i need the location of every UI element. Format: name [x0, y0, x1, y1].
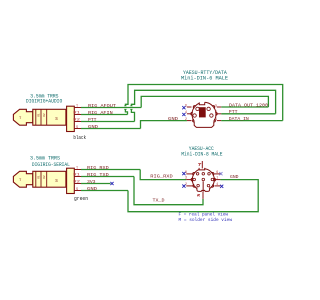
pin 4 of J4: [215, 182, 221, 186]
pin R1 of J3: [73, 174, 81, 178]
pin 8 of J4: [185, 170, 193, 174]
svg-text:GND: GND: [88, 124, 98, 130]
svg-text:TX_D: TX_D: [153, 198, 165, 204]
pin hole mid-left of J2: [193, 114, 196, 117]
wire GND audio: [81, 128, 141, 130]
svg-text:R1: R1: [37, 175, 40, 179]
svg-text:S: S: [76, 188, 78, 192]
pin hole row1b of J4: [202, 173, 205, 176]
wire PTT row DIN6: [221, 113, 275, 115]
svg-text:RIG_AFOUT: RIG_AFOUT: [88, 103, 116, 109]
pin 4 of J2: [185, 110, 192, 114]
svg-text:S: S: [76, 126, 78, 130]
svg-text:RIG_RXD: RIG_RXD: [87, 165, 109, 171]
svg-text:Mini-DIN-8 MALE: Mini-DIN-8 MALE: [181, 152, 222, 158]
svg-text:R2: R2: [73, 181, 80, 185]
wire RIG_AFOUT: [81, 107, 141, 109]
svg-text:R1: R1: [73, 112, 80, 116]
svg-text:DATA_OUT_1200: DATA_OUT_1200: [229, 102, 268, 108]
pin 3 of J2: [215, 110, 221, 114]
pin 2 of J2: [185, 117, 192, 121]
svg-text:GND: GND: [87, 186, 97, 192]
no-connect X 3V3: [110, 182, 113, 185]
wire run RIG_AFOUT to DATA_OUT_1200 inner loop: [141, 96, 268, 107]
svg-text:F = real panel view: F = real panel view: [179, 212, 229, 218]
no-connect X pin 6 J2: [182, 106, 185, 109]
internal wire center pin of J4: [202, 181, 204, 191]
svg-text:6: 6: [216, 170, 218, 174]
svg-text:3: 3: [185, 176, 187, 180]
svg-text:5: 5: [215, 103, 217, 107]
wire hop ticks on outer loop vertical: [124, 106, 126, 109]
pin 6 of J4: [215, 170, 221, 174]
svg-text:R2: R2: [43, 113, 46, 117]
svg-text:2: 2: [185, 117, 187, 121]
svg-text:Mini-DIN-6 MALE: Mini-DIN-6 MALE: [181, 76, 228, 82]
pin 1 of J2: [215, 117, 221, 121]
svg-text:R1: R1: [37, 113, 40, 117]
pin S of J3: [74, 188, 81, 192]
svg-text:M = solder side view: M = solder side view: [179, 217, 233, 223]
pin 6 of J2: [185, 103, 192, 107]
pin hole row2b of J4: [202, 178, 205, 181]
wire RIG_RXD: [81, 169, 140, 171]
wire DATA_OUT_1200 row: [221, 106, 268, 108]
pin hole row1a of J4: [196, 173, 199, 176]
svg-text:DIGIRIG+AUDIO: DIGIRIG+AUDIO: [26, 99, 62, 105]
svg-text:PTT: PTT: [88, 117, 97, 123]
pin 2 of J4: [185, 182, 193, 186]
svg-text:RIG_AFIN: RIG_AFIN: [88, 110, 113, 116]
connector J4 Mini-DIN-8 male body: [191, 166, 215, 191]
svg-text:RIG_RXD: RIG_RXD: [150, 173, 173, 179]
no-connect X pin 2 J4: [182, 185, 185, 188]
svg-text:GND: GND: [168, 116, 178, 122]
wire RIG_RXD jog to DIN8 pin3: [140, 170, 186, 180]
svg-text:DIGIRIG-SERIAL: DIGIRIG-SERIAL: [32, 162, 70, 168]
connector J3 3.5mm TRRS DIGIRIG-SERIAL plug body: [13, 168, 74, 193]
pin hole row1c of J4: [208, 173, 211, 176]
svg-text:R1: R1: [73, 174, 80, 178]
svg-text:3: 3: [215, 110, 217, 114]
pin hole row3a of J4: [197, 184, 200, 187]
pin 3 of J4: [185, 176, 193, 180]
wire GND serial loop to DIN8: [128, 180, 258, 212]
wire run DATA_IN to RIG_AFIN outer loop: [125, 85, 282, 121]
wire PTT: [81, 121, 135, 123]
pin hole top-right of J2: [207, 107, 210, 110]
svg-text:DATA_IN: DATA_IN: [229, 116, 249, 122]
pin number 5 bottom of J4: [198, 195, 200, 197]
pin hole top-left of J2: [196, 107, 199, 110]
pin S of J1: [74, 126, 81, 130]
wire RIG_TXD to TX_D: [134, 177, 203, 205]
no-connect X pin 4 J4: [220, 185, 223, 188]
wire 3V3: [81, 183, 111, 185]
pin hole mid-right of J2: [210, 114, 213, 117]
svg-text:R2: R2: [43, 175, 46, 179]
pin T of J1: [74, 105, 81, 109]
svg-text:green: green: [74, 196, 88, 202]
wire DATA_IN row DIN6: [221, 120, 283, 122]
pin 1 of J4: [215, 176, 221, 180]
no-connect X pin 4 J2: [182, 113, 185, 116]
svg-text:black: black: [73, 135, 86, 141]
connector J2 Mini-DIN-6 male body: [191, 101, 217, 128]
wire run PTT loop: [131, 90, 275, 121]
svg-text:PTT: PTT: [229, 109, 238, 115]
wire GND serial: [81, 190, 128, 192]
svg-text:R2: R2: [73, 119, 80, 123]
wire RIG_AFIN: [81, 114, 128, 116]
pin number 7 of J4: [198, 164, 201, 166]
key slot of J2: [199, 108, 205, 117]
svg-text:GND: GND: [230, 174, 239, 180]
svg-text:3V3: 3V3: [87, 179, 96, 185]
svg-text:RIG_TXD: RIG_TXD: [87, 172, 109, 178]
svg-text:4: 4: [216, 182, 218, 186]
wire hop ticks on PTT loop vertical: [130, 106, 132, 109]
svg-text:1: 1: [215, 117, 217, 121]
pin 5 of J2: [215, 103, 221, 107]
pin R2 of J1: [73, 119, 81, 123]
no-connect X pin 6 J4: [219, 172, 222, 175]
pin hole row3b of J4: [207, 184, 210, 187]
pin T of J3: [74, 167, 81, 171]
pin hole row2a of J4: [193, 178, 196, 181]
wire RIG_TXD: [81, 176, 134, 178]
pin 7 stub top of J4: [201, 161, 203, 168]
pin hole row2c of J4: [211, 178, 214, 181]
pin stub bottom of J4: [202, 192, 204, 199]
no-connect X pin 8 J4: [182, 172, 185, 175]
pin R1 of J1: [73, 112, 81, 116]
wire GND audio to DIN6 pin2: [141, 121, 187, 129]
svg-text:1: 1: [216, 176, 218, 180]
connector J1 3.5mm TRRS DIGIRIG+AUDIO plug body: [13, 106, 74, 131]
svg-text:3.5mm TRRS: 3.5mm TRRS: [30, 155, 60, 161]
pin R2 of J3: [73, 181, 81, 185]
